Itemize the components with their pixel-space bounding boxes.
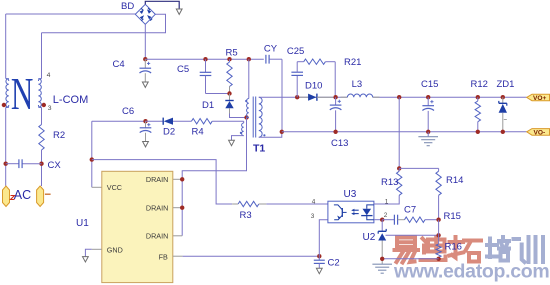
wire BD top to arrow port	[145, 1, 179, 9]
wire U3 pin3 to FB	[319, 220, 328, 257]
resistor R5	[229, 59, 231, 62]
junction R13 top	[397, 166, 401, 170]
wire AC line L top	[6, 13, 136, 15]
primary bus wire	[145, 58, 263, 60]
svg-text:VO+: VO+	[533, 95, 547, 102]
drain pin 1 wire	[173, 178, 182, 180]
bridge rectifier BD	[135, 4, 155, 24]
junction bus R5	[227, 57, 231, 61]
IC U1 box	[102, 171, 173, 282]
secondary top rail VO+	[259, 96, 348, 98]
svg-text:T1: T1	[253, 143, 265, 155]
junction bus primary	[247, 57, 251, 61]
svg-text:U1: U1	[76, 218, 89, 229]
earth ground C15	[427, 132, 429, 137]
optocoupler U3 box	[328, 201, 374, 223]
wire AC line L vertical	[5, 14, 7, 79]
svg-text:C7: C7	[404, 204, 416, 215]
watermark text	[393, 237, 549, 283]
svg-text:R13: R13	[381, 177, 398, 188]
junction ZD1 top	[501, 95, 505, 99]
junction R15 R14 R16	[436, 218, 440, 222]
resistor R2	[39, 125, 44, 151]
resistor R15	[398, 219, 405, 221]
svg-text:3: 3	[311, 213, 315, 220]
port VO-	[527, 129, 550, 136]
junction R16 mid	[436, 233, 440, 237]
capacitor C6	[145, 121, 147, 128]
zener diode U2	[381, 220, 383, 232]
port AC right	[37, 186, 44, 207]
svg-text:R2: R2	[53, 130, 65, 141]
svg-text:VO-: VO-	[534, 129, 546, 136]
junction bus C5	[203, 57, 207, 61]
transformer T1 primary winding	[247, 99, 249, 118]
junction CX right	[39, 162, 43, 166]
L-COM polarity dot left	[2, 103, 6, 107]
junction pin2 U2	[380, 218, 384, 222]
svg-text:BD: BD	[121, 1, 134, 12]
resistor R3	[232, 203, 238, 205]
resistor R21	[297, 61, 304, 63]
svg-text:R5: R5	[226, 48, 238, 59]
svg-text:DRAIN: DRAIN	[146, 232, 168, 241]
drain pin 3 wire	[173, 235, 182, 237]
diode D10	[300, 96, 308, 98]
junction U2 ground	[380, 257, 384, 261]
svg-text:R21: R21	[344, 57, 361, 68]
L-COM right winding	[38, 79, 41, 108]
junction R16 bottom	[436, 257, 440, 261]
T1 secondary polarity dot	[263, 134, 265, 136]
wire BD bottom to bus	[144, 24, 146, 59]
port AC left	[3, 186, 10, 207]
junction R12 bottom	[476, 130, 480, 134]
wire R16 bottom to ground	[382, 258, 438, 260]
port VO+	[527, 94, 550, 101]
U3 phototransistor	[334, 205, 342, 210]
svg-text:C6: C6	[122, 106, 134, 117]
arrow ground C2	[316, 268, 322, 273]
wire R21 to rail	[334, 62, 336, 97]
capacitor C25	[296, 76, 298, 97]
svg-text:2: 2	[384, 212, 388, 219]
orange dash near right AC port	[45, 193, 51, 195]
T1 primary polarity dot	[245, 100, 247, 102]
capacitor C7	[382, 219, 394, 221]
arrow ground C4	[142, 82, 148, 87]
inductor L3	[341, 96, 348, 98]
svg-text:R15: R15	[444, 211, 461, 222]
svg-text:GND: GND	[107, 246, 123, 255]
capacitor C4	[144, 59, 146, 68]
arrow ground C6	[143, 142, 149, 147]
junction drain 2	[180, 206, 184, 210]
wire CY to secondary ground	[281, 59, 283, 132]
wire aux to ground arrow	[232, 136, 244, 141]
wire L-COM right below	[41, 108, 43, 125]
svg-text:R3: R3	[240, 210, 252, 221]
wire D1 to primary	[230, 114, 247, 118]
common-mode choke L-COM left winding	[6, 79, 9, 108]
wire D1 junction to drain bus	[182, 118, 246, 236]
svg-text:D2: D2	[163, 127, 175, 138]
junction C25 top rail	[295, 95, 299, 99]
svg-text:3: 3	[48, 105, 52, 112]
arrow port top	[176, 9, 182, 14]
capacitor C15	[427, 97, 429, 106]
svg-text:U3: U3	[344, 189, 357, 200]
resistor R12	[477, 97, 479, 101]
svg-text:www.edatop.com: www.edatop.com	[393, 261, 549, 283]
resistor R14	[438, 168, 440, 171]
junction R5 C5 D1	[227, 91, 231, 95]
secondary bottom rail VO-	[282, 131, 527, 133]
svg-text:L-COM: L-COM	[53, 94, 88, 106]
zener diode ZD1	[502, 97, 504, 103]
svg-text:4: 4	[47, 72, 51, 79]
svg-text:VCC: VCC	[107, 183, 122, 192]
wire rail to R13	[398, 97, 400, 168]
wire U3 pin1 to R13	[374, 195, 399, 204]
capacitor CY	[265, 55, 267, 64]
junction primary bottom	[244, 115, 248, 119]
junction C6	[143, 119, 147, 123]
junction D10 C13 rail	[333, 95, 337, 99]
wire AC line R top	[42, 14, 166, 33]
wire U2 to R16	[386, 234, 439, 236]
capacitor C2	[318, 256, 320, 260]
junction CX left	[3, 162, 7, 166]
drain pin 2 wire	[173, 207, 182, 209]
svg-text:FB: FB	[159, 252, 168, 261]
T1 core	[252, 97, 254, 138]
junction C13 bottom	[333, 130, 337, 134]
U3 light arrows	[353, 209, 359, 211]
junction C15 top	[426, 95, 430, 99]
T1 aux polarity dot	[240, 132, 242, 134]
svg-text:ZD1: ZD1	[497, 79, 515, 90]
transformer T1 aux winding	[243, 121, 245, 123]
resistor R4	[192, 119, 213, 124]
svg-text:N: N	[11, 69, 33, 119]
svg-text:R4: R4	[192, 127, 204, 138]
junction bus C4	[143, 57, 147, 61]
diode D1	[229, 94, 231, 101]
arrow ground aux	[229, 140, 235, 145]
U1 GND wire	[92, 248, 102, 250]
junction VO- row left	[280, 130, 284, 134]
wire R13 top to R14	[399, 167, 438, 169]
svg-text:CX: CX	[48, 160, 62, 171]
capacitor CX	[6, 163, 19, 165]
svg-text:C4: C4	[113, 59, 125, 70]
junction ZD1 bottom	[501, 130, 505, 134]
FB wire row	[173, 255, 183, 257]
resistor R13	[398, 168, 400, 171]
junction FB C2	[317, 254, 321, 258]
junction drain 1	[180, 177, 184, 181]
junction R12 top	[476, 95, 480, 99]
wire T1 secondary bottom	[259, 132, 282, 137]
red mark near AC port	[11, 196, 15, 200]
svg-text:CY: CY	[264, 43, 278, 54]
svg-text:R14: R14	[446, 175, 463, 186]
svg-text:C15: C15	[421, 79, 438, 90]
svg-text:C2: C2	[328, 258, 340, 269]
resistor R16	[438, 220, 440, 244]
U3 LED	[367, 205, 374, 209]
wire tee to R3	[92, 160, 232, 204]
svg-text:DRAIN: DRAIN	[146, 175, 168, 184]
svg-text:C25: C25	[287, 46, 304, 57]
svg-text:L3: L3	[352, 79, 363, 90]
earth ground U2	[372, 263, 392, 265]
svg-text:D10: D10	[305, 80, 322, 91]
junction C15 bottom	[426, 130, 430, 134]
diode D2	[146, 120, 164, 122]
svg-text:R16: R16	[445, 242, 462, 253]
svg-text:C13: C13	[331, 138, 348, 149]
transformer T1 secondary winding	[259, 97, 262, 137]
junction rail R13 drop	[397, 95, 401, 99]
svg-text:C5: C5	[177, 64, 189, 75]
L-COM polarity dot right	[42, 103, 46, 107]
junction VCC R3 tee	[90, 157, 94, 161]
wire L-COM left to CX	[5, 108, 7, 187]
svg-text:R12: R12	[471, 79, 488, 90]
arrow ground U1	[83, 257, 89, 262]
capacitor C5	[205, 59, 207, 72]
svg-text:4: 4	[312, 198, 316, 205]
wire U3 pin2 row	[374, 219, 382, 221]
wire VCC riser	[91, 121, 93, 187]
svg-text:DRAIN: DRAIN	[146, 203, 168, 212]
wire bus to T1 primary	[248, 59, 250, 98]
svg-text:U2: U2	[363, 232, 376, 243]
svg-text:D1: D1	[202, 100, 214, 111]
capacitor C13	[335, 97, 337, 105]
wire aux row	[92, 120, 146, 122]
svg-text:AC: AC	[14, 188, 31, 202]
wire R2 to AC port	[41, 150, 43, 186]
wire VCC to U1	[92, 186, 102, 188]
